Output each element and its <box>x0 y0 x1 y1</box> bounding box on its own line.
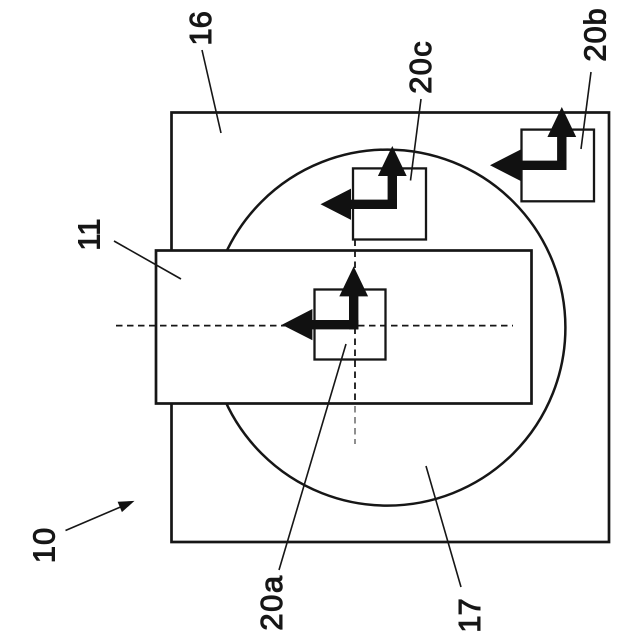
svg-text:11: 11 <box>72 219 107 251</box>
svg-text:16: 16 <box>183 11 218 45</box>
svg-text:20a: 20a <box>254 574 289 630</box>
svg-text:20b: 20b <box>578 7 613 61</box>
svg-text:10: 10 <box>26 527 61 563</box>
svg-text:20c: 20c <box>403 40 438 94</box>
svg-text:17: 17 <box>452 598 487 632</box>
